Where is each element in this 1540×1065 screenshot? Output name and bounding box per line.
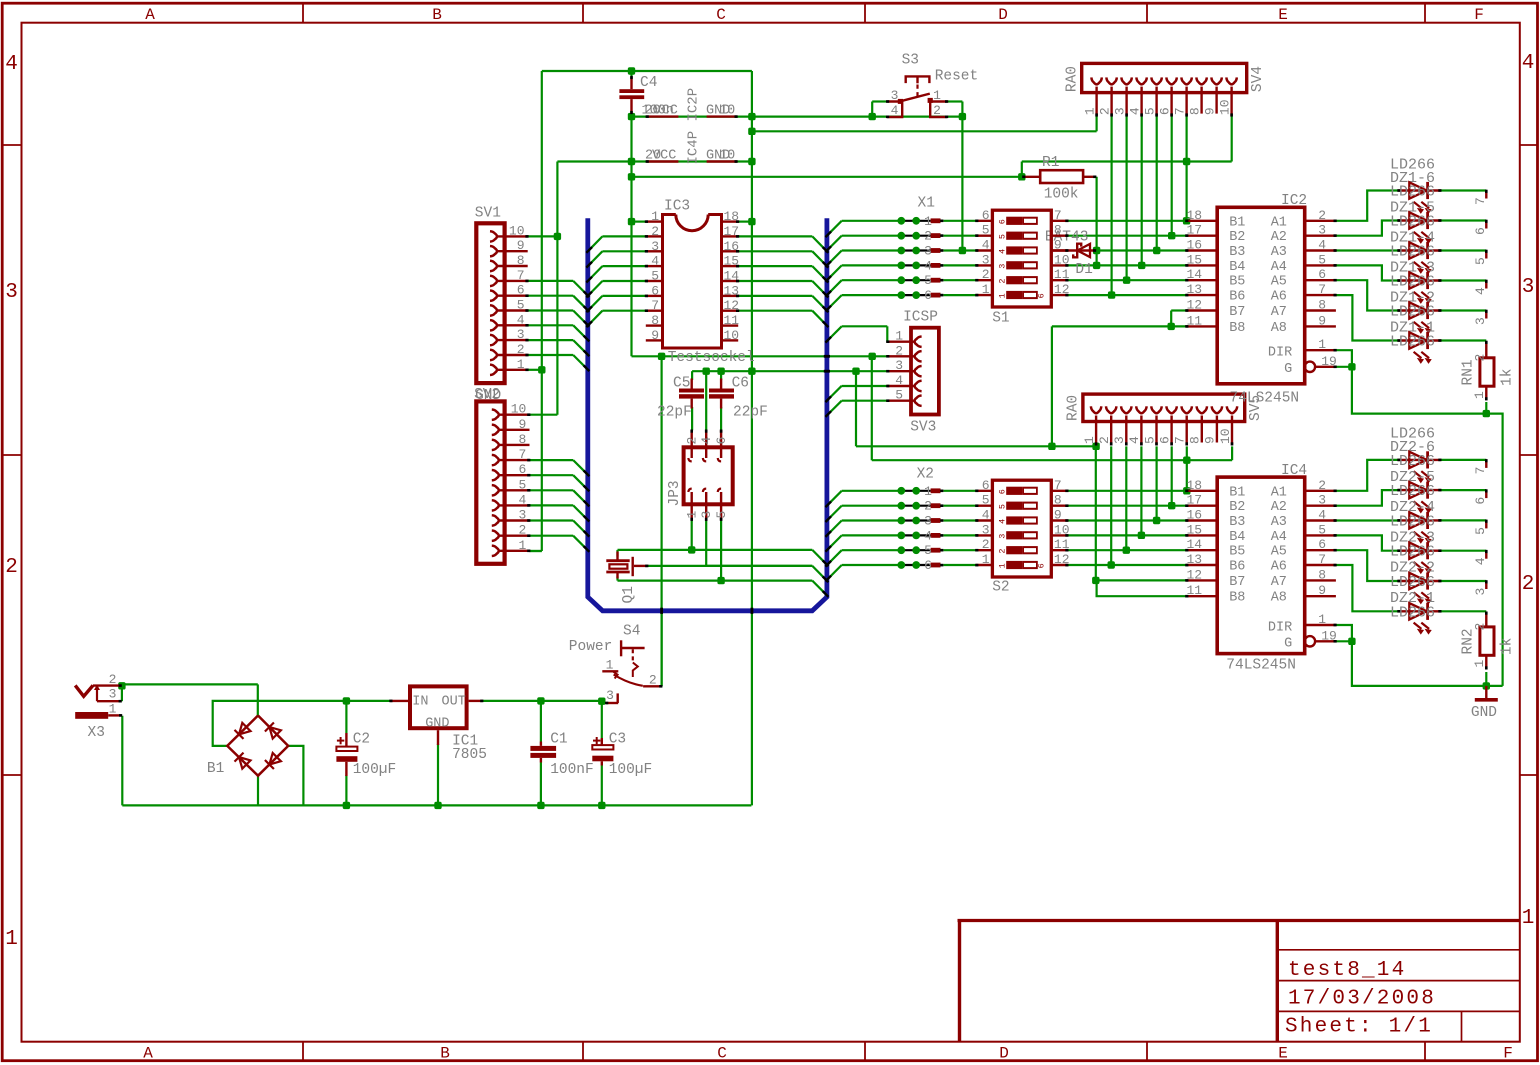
- wire SV1 pin10: [528, 235, 558, 237]
- svg-text:5: 5: [1142, 107, 1157, 115]
- wire JP3 pin3 elbow: [706, 520, 812, 566]
- svg-text:IC4P: IC4P: [686, 131, 702, 165]
- svg-text:IC4: IC4: [1281, 463, 1307, 479]
- svg-text:A6: A6: [1271, 290, 1287, 305]
- wire S3 pin1 link: [947, 100, 962, 102]
- wire IC4 A1 to LED: [1336, 460, 1398, 491]
- IC2 74LS245N: [1185, 193, 1337, 384]
- svg-text:5: 5: [998, 234, 1008, 239]
- wire VCC row to R1: [632, 176, 1022, 178]
- svg-text:2: 2: [998, 548, 1008, 553]
- wire IC2 B8 drop: [1051, 326, 1053, 446]
- wire S3 pin3 link: [872, 100, 887, 102]
- svg-text:GND: GND: [475, 388, 501, 404]
- svg-text:22pF: 22pF: [657, 405, 692, 421]
- wire X3 pin2 wire: [122, 683, 258, 685]
- svg-text:B4: B4: [1229, 530, 1245, 545]
- wire diagonal into left bus: [573, 505, 588, 520]
- svg-text:B7: B7: [1229, 305, 1245, 320]
- wire diagonal into left bus: [573, 521, 588, 536]
- svg-text:3: 3: [895, 358, 903, 373]
- wire IC4 A3 to LED: [1336, 519, 1398, 521]
- wire IC3 pin1 link: [632, 221, 646, 223]
- wire ICSP pin1 wire: [842, 325, 888, 327]
- svg-text:6: 6: [517, 283, 525, 298]
- wire LED DZ2-2 cathode wire: [1441, 580, 1487, 582]
- wire diagonal out of right bus (ICSP pin1): [827, 326, 842, 341]
- svg-text:10: 10: [719, 104, 735, 119]
- wire IC4 A5 to LED: [1336, 550, 1398, 581]
- wire S1-IC2 row6 wire: [1068, 294, 1186, 296]
- wire diagonal into right bus: [812, 566, 827, 581]
- wire IC3 right pin16 wire: [738, 250, 812, 252]
- wire X1-S1 link row1: [944, 220, 977, 222]
- svg-text:5: 5: [1473, 527, 1488, 535]
- wire SV4 pin3 drop: [1125, 117, 1127, 281]
- svg-text:C: C: [716, 6, 726, 24]
- wire diagonal into left bus: [573, 355, 588, 370]
- svg-text:4: 4: [1127, 436, 1142, 444]
- svg-text:3: 3: [699, 511, 714, 519]
- svg-text:A2: A2: [1271, 230, 1287, 245]
- svg-text:A: A: [145, 6, 155, 24]
- wire diagonal into left bus: [573, 460, 588, 475]
- wire S2-IC4 row6 wire: [1068, 564, 1186, 566]
- svg-text:1: 1: [1318, 612, 1326, 627]
- wire diagonal into left bus: [588, 296, 603, 311]
- wire diagonal into right bus: [812, 281, 827, 296]
- svg-text:D: D: [998, 6, 1008, 24]
- wire SV5 pin10 drop: [1231, 446, 1233, 460]
- svg-text:17: 17: [1187, 493, 1203, 508]
- wire diagonal out of right bus: [827, 506, 842, 521]
- bus crossing marks: [660, 608, 663, 614]
- wire C3 bottom wire: [601, 766, 603, 806]
- wire R1 left riser: [1021, 162, 1023, 177]
- svg-text:8: 8: [1187, 107, 1202, 115]
- wire LED DZ2-5 cathode wire: [1441, 489, 1487, 491]
- svg-text:VCC: VCC: [652, 148, 676, 163]
- svg-text:B8: B8: [1229, 591, 1245, 606]
- wire Q1 bottom stub wire: [616, 577, 618, 581]
- svg-text:RA0: RA0: [1064, 66, 1080, 92]
- wire SV2 pin2 wire: [530, 535, 574, 537]
- wire LED DZ2-4 cathode wire: [1441, 519, 1487, 521]
- wire X2-S2 link row3: [944, 519, 977, 521]
- switch S4 Power: [569, 624, 663, 705]
- wire diagonal into right bus: [812, 236, 827, 251]
- svg-text:C1: C1: [550, 732, 567, 748]
- svg-text:SV3: SV3: [910, 420, 936, 436]
- svg-text:A1: A1: [1271, 485, 1287, 500]
- wire X2-S2 link row4: [944, 534, 977, 536]
- wire S1-IC2 row1 wire: [1068, 220, 1186, 222]
- svg-text:A7: A7: [1271, 575, 1287, 590]
- svg-text:X3: X3: [88, 725, 105, 741]
- svg-text:19: 19: [1321, 354, 1337, 369]
- svg-text:A4: A4: [1271, 530, 1287, 545]
- svg-text:8: 8: [517, 253, 525, 268]
- svg-text:4: 4: [1318, 238, 1326, 253]
- wire X2 row6 wire: [842, 564, 902, 566]
- wire SV5 pin2 drop: [1110, 446, 1112, 565]
- wire SV4 pin5 drop: [1156, 117, 1158, 251]
- svg-text:A3: A3: [1271, 515, 1287, 530]
- svg-text:Sheet: 1/1: Sheet: 1/1: [1285, 1016, 1433, 1039]
- svg-text:2: 2: [895, 343, 903, 358]
- wire Q1 top stub wire: [616, 550, 618, 557]
- svg-text:11: 11: [1187, 583, 1203, 598]
- wire LED DZ1-4 cathode wire: [1441, 249, 1487, 251]
- svg-text:A5: A5: [1271, 545, 1287, 560]
- wire ICSP pin2 drop: [871, 356, 873, 460]
- svg-text:5: 5: [517, 298, 525, 313]
- svg-text:7: 7: [1318, 552, 1326, 567]
- svg-text:X1: X1: [918, 196, 935, 212]
- wire S3 to reset net drop: [961, 102, 963, 251]
- svg-text:100µF: 100µF: [353, 762, 397, 778]
- svg-text:2: 2: [1097, 107, 1112, 115]
- svg-text:1: 1: [685, 511, 700, 519]
- wire X1 row5 wire: [842, 279, 902, 281]
- svg-text:GND: GND: [425, 717, 449, 732]
- wire SV4 pin2 drop: [1110, 117, 1112, 296]
- svg-text:6: 6: [1157, 436, 1172, 444]
- wire IC3 left pin5 wire: [602, 280, 645, 282]
- wire power pins row VCC/GND: [632, 115, 963, 117]
- wire SV5 pin7 drop: [1186, 446, 1188, 490]
- crystal Q1: [606, 552, 648, 604]
- svg-text:Power: Power: [569, 639, 613, 655]
- wire X1 row2 wire: [842, 235, 902, 237]
- svg-text:18: 18: [1187, 208, 1203, 223]
- wire diagonal into left bus: [588, 251, 603, 266]
- svg-text:DIR: DIR: [1268, 620, 1292, 635]
- svg-text:4: 4: [1522, 52, 1535, 75]
- capacitor C6 22pF: [709, 376, 768, 421]
- svg-text:11: 11: [1187, 313, 1203, 328]
- connector SV4 (RA0): [1064, 63, 1266, 116]
- wire S2-IC4 row4 wire: [1068, 534, 1186, 536]
- wire S2-IC4 row3 wire: [1068, 519, 1186, 521]
- wire diagonal out of right bus: [827, 550, 842, 565]
- wire X2-S2 link row2: [944, 505, 977, 507]
- wire SV5 pin3 drop: [1125, 446, 1127, 550]
- wire IC3 left pin6 wire: [602, 295, 645, 297]
- wire X3 pin1 drop: [121, 716, 123, 806]
- svg-text:IC2: IC2: [1281, 193, 1307, 209]
- wire IC2 B7 wire: [1171, 309, 1186, 311]
- svg-text:5: 5: [998, 504, 1008, 509]
- svg-text:2: 2: [649, 673, 657, 688]
- wire diagonal out of right bus: [827, 535, 842, 550]
- svg-text:A6: A6: [1271, 560, 1287, 575]
- svg-text:B2: B2: [1229, 500, 1245, 515]
- wire diagonal into right bus: [812, 251, 827, 266]
- wire diagonal into left bus: [588, 266, 603, 281]
- wire diagonal into left bus: [573, 296, 588, 311]
- wire diagonal into right bus: [812, 266, 827, 281]
- jumper JP3: [667, 430, 733, 521]
- wire SV5 pin1 drop to IC4: [1095, 446, 1097, 580]
- svg-text:1: 1: [1472, 660, 1487, 668]
- svg-text:B5: B5: [1229, 275, 1245, 290]
- voltage regulator IC1 7805: [389, 686, 487, 763]
- svg-text:5: 5: [651, 269, 659, 284]
- wire JP3 pin5 row: [618, 579, 813, 581]
- jumper block X2: [897, 467, 943, 574]
- svg-text:1: 1: [998, 293, 1008, 298]
- wire SV5 pin6 drop: [1171, 446, 1173, 505]
- svg-text:2: 2: [109, 672, 117, 687]
- svg-text:2: 2: [651, 224, 659, 239]
- wire ICSP pin4 wire: [842, 385, 887, 387]
- svg-text:S1: S1: [992, 311, 1009, 327]
- wire diagonal out of right bus (ICSP pin5): [827, 401, 842, 416]
- wire diagonal into left bus: [573, 475, 588, 490]
- svg-text:4: 4: [651, 254, 659, 269]
- frame left band ticks: [3, 144, 21, 146]
- svg-text:4: 4: [1473, 557, 1488, 565]
- wire X1-S1 link row3: [944, 249, 977, 251]
- wire SV5 pin5 drop: [1155, 446, 1157, 520]
- switch S3 Reset: [886, 53, 978, 119]
- svg-text:9: 9: [1202, 107, 1217, 115]
- wire LED DZ1-1 cathode wire: [1441, 339, 1487, 341]
- svg-text:1: 1: [933, 88, 941, 103]
- resistor network RN2 1k: [1480, 459, 1494, 669]
- wire diagonal out of right bus: [827, 221, 842, 236]
- svg-text:2: 2: [1318, 478, 1326, 493]
- wire SV1 pin3 wire: [528, 339, 574, 341]
- svg-text:1k: 1k: [1500, 369, 1516, 386]
- svg-text:9: 9: [517, 238, 525, 253]
- wire SV1 pin5 wire: [528, 309, 574, 311]
- wire LED DZ1-3 cathode wire: [1441, 279, 1487, 281]
- wire IC2 DIR/G net: [1336, 350, 1503, 686]
- svg-text:5: 5: [1318, 252, 1326, 267]
- wire diagonal out of right bus: [827, 295, 842, 310]
- svg-text:C5: C5: [673, 376, 690, 392]
- wire SV2 pin10 wire: [530, 414, 558, 416]
- wire S1-IC2 row4 wire: [1068, 264, 1186, 266]
- svg-text:B: B: [440, 1045, 450, 1063]
- wire IC2 A4 to LED: [1336, 265, 1398, 280]
- wire SV1/SV2 pin10 vertical: [556, 162, 558, 415]
- svg-text:1: 1: [517, 357, 525, 372]
- svg-text:6: 6: [1157, 107, 1172, 115]
- wire X2 row4 wire: [842, 534, 902, 536]
- wire SV1 pin6 wire: [528, 295, 574, 297]
- svg-text:1: 1: [1522, 907, 1535, 930]
- wire IC4 DIR/G net: [1336, 625, 1503, 686]
- svg-text:10: 10: [1218, 428, 1233, 444]
- wire SV2 pin5 wire: [530, 489, 574, 491]
- svg-text:15: 15: [1187, 252, 1203, 267]
- svg-text:D1: D1: [1075, 262, 1092, 278]
- svg-text:6: 6: [714, 437, 729, 445]
- svg-text:5: 5: [1473, 257, 1488, 265]
- svg-text:100nF: 100nF: [550, 762, 594, 778]
- wire ICSP pin1 drop: [886, 326, 888, 341]
- svg-text:DIR: DIR: [1268, 346, 1292, 361]
- svg-text:6: 6: [1318, 267, 1326, 282]
- svg-text:GND: GND: [1471, 705, 1497, 721]
- svg-text:7: 7: [1173, 436, 1188, 444]
- svg-text:9: 9: [1203, 436, 1218, 444]
- wire diagonal out of right bus: [827, 251, 842, 266]
- svg-text:4: 4: [5, 53, 18, 76]
- svg-text:10: 10: [724, 328, 740, 343]
- svg-text:3: 3: [1112, 107, 1127, 115]
- wire diagonal into left bus: [588, 281, 603, 296]
- wire Testsockel net row: [632, 355, 887, 357]
- svg-text:C6: C6: [732, 376, 749, 392]
- wire SV4 pin1 drop: [1095, 117, 1097, 132]
- svg-text:6: 6: [924, 558, 932, 573]
- wire IC3 pin18 link: [738, 221, 752, 223]
- svg-text:B5: B5: [1229, 545, 1245, 560]
- wire LED DZ2-3 cathode wire: [1441, 550, 1487, 552]
- connector SV5 (RA0): [1066, 394, 1265, 445]
- wire SV2 pin3 wire: [530, 519, 574, 521]
- svg-text:A8: A8: [1271, 591, 1287, 606]
- svg-text:7: 7: [517, 268, 525, 283]
- wire diagonal into left bus: [573, 536, 588, 551]
- svg-text:B2: B2: [1229, 230, 1245, 245]
- svg-text:1: 1: [518, 538, 526, 553]
- svg-text:C: C: [717, 1045, 727, 1063]
- svg-text:15: 15: [1187, 522, 1203, 537]
- wire X2 row2 wire: [842, 505, 902, 507]
- connector SV1: [475, 206, 529, 384]
- IC4 74LS245N: [1185, 463, 1337, 654]
- svg-text:6: 6: [518, 462, 526, 477]
- svg-text:7805: 7805: [452, 747, 487, 763]
- svg-text:D: D: [999, 1045, 1009, 1063]
- wire IC2 A6 to LED: [1336, 295, 1398, 340]
- svg-text:3: 3: [998, 534, 1008, 539]
- wire C3 top wire: [601, 701, 603, 738]
- wire IC3 right pin13 wire: [738, 295, 812, 297]
- svg-text:3: 3: [1318, 493, 1326, 508]
- wire C6 top stub wire: [720, 371, 722, 380]
- wire C2 top wire: [345, 701, 347, 733]
- wire VCC top rail: [542, 70, 752, 72]
- wire S2-IC4 row1 wire: [1068, 490, 1186, 492]
- wire X2 row5 wire: [842, 549, 902, 551]
- svg-text:2: 2: [924, 229, 932, 244]
- wire JP3 pin1 row: [618, 549, 813, 551]
- wire diagonal out of right bus: [827, 265, 842, 280]
- svg-text:A7: A7: [1271, 305, 1287, 320]
- svg-text:9: 9: [1318, 313, 1326, 328]
- wire bridge left to IN rail: [213, 701, 390, 746]
- svg-text:12: 12: [1187, 567, 1203, 582]
- svg-text:13: 13: [1187, 282, 1203, 297]
- wire pullup vertical: [1095, 177, 1097, 266]
- svg-text:2: 2: [517, 342, 525, 357]
- wire S1-IC2 row2 wire: [1068, 235, 1186, 237]
- svg-text:C4: C4: [640, 75, 657, 91]
- svg-text:7: 7: [1318, 282, 1326, 297]
- svg-text:LD266: LD266: [1390, 184, 1435, 201]
- svg-text:74LS245N: 74LS245N: [1226, 658, 1296, 674]
- wire C6 bottom wire: [720, 407, 722, 430]
- svg-text:8: 8: [1318, 298, 1326, 313]
- wire X1 row3 wire: [842, 249, 902, 251]
- svg-text:LD266: LD266: [1390, 214, 1435, 231]
- svg-text:1: 1: [1472, 391, 1487, 399]
- svg-text:7: 7: [518, 447, 526, 462]
- svg-text:6: 6: [924, 288, 932, 303]
- svg-text:Q1: Q1: [621, 586, 637, 603]
- svg-text:4: 4: [924, 258, 932, 273]
- wire SV4 pin10 drop: [1231, 117, 1233, 162]
- LED array DZ1-6..DZ1-1 (LD266): [1390, 157, 1442, 364]
- svg-text:3: 3: [998, 264, 1008, 269]
- svg-text:4: 4: [518, 492, 526, 507]
- dip switch S2: [975, 478, 1070, 596]
- svg-text:4: 4: [998, 249, 1008, 254]
- svg-text:1: 1: [1082, 436, 1097, 444]
- capacitor C3 100uF: [592, 732, 652, 779]
- svg-text:SV4: SV4: [1250, 66, 1266, 92]
- svg-text:4: 4: [998, 519, 1008, 524]
- wire GND right vertical: [751, 71, 753, 805]
- wire VCC left vertical: [541, 71, 543, 551]
- svg-text:A: A: [143, 1045, 153, 1063]
- wire S1-IC2 row5 wire: [1068, 279, 1186, 281]
- connector SV2: [474, 387, 530, 564]
- wire RN1 pin1 wire: [1485, 402, 1487, 414]
- svg-text:OUT: OUT: [442, 695, 466, 710]
- wire Testsockel to S4 drop: [660, 356, 662, 686]
- wire Q1 case row: [648, 565, 813, 567]
- svg-text:9: 9: [651, 328, 659, 343]
- wire SV4 pin6 drop: [1171, 117, 1173, 236]
- svg-text:1k: 1k: [1500, 638, 1516, 655]
- wire X1 row1 wire: [842, 220, 902, 222]
- wire LED DZ2-6 cathode wire: [1441, 459, 1487, 461]
- resistor R1: [1022, 155, 1096, 203]
- LED array DZ2-6..DZ2-1 (LD266): [1390, 426, 1442, 634]
- svg-text:4: 4: [1473, 287, 1488, 295]
- svg-text:4: 4: [891, 103, 899, 118]
- wire IC4 G link: [1336, 640, 1352, 642]
- wire diagonal into left bus: [573, 281, 588, 296]
- wire C1 top wire: [540, 701, 542, 742]
- svg-text:74LS245N: 74LS245N: [1230, 391, 1300, 407]
- svg-text:17/03/2008: 17/03/2008: [1288, 988, 1436, 1011]
- frame top band ticks: [302, 4, 304, 23]
- svg-text:7: 7: [1473, 197, 1488, 205]
- wire SV2 pin4 wire: [530, 504, 574, 506]
- svg-text:Reset: Reset: [935, 69, 979, 85]
- wire IC3 left pin2 wire: [602, 235, 645, 237]
- svg-text:2: 2: [5, 556, 18, 579]
- title block outline: [958, 919, 1520, 922]
- wire XTAL-GND row: [692, 370, 887, 372]
- bus entry ticks: [584, 291, 590, 297]
- wire GND bottom rail: [122, 804, 751, 806]
- svg-text:2: 2: [1318, 208, 1326, 223]
- svg-text:ICSP: ICSP: [903, 310, 938, 326]
- svg-text:LD266: LD266: [1390, 274, 1435, 291]
- wire IC2 A1 to LED: [1336, 191, 1398, 221]
- svg-text:4: 4: [924, 528, 932, 543]
- wire X2-S2 link row5: [944, 549, 977, 551]
